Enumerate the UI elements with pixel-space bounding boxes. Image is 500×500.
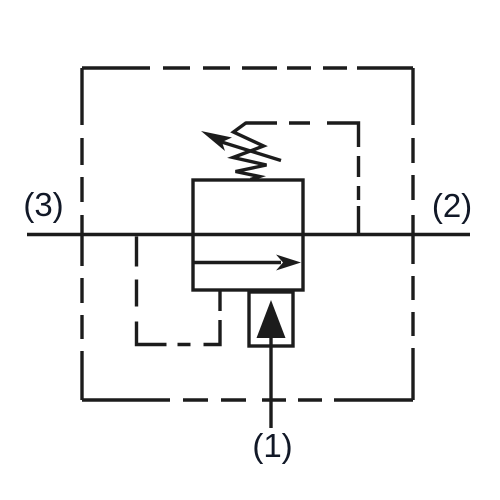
wire: outer dashed drain envelope bottom: [82, 398, 413, 401]
wire: outer dashed drain envelope right: [411, 68, 414, 400]
wire: pilot dashed line from spring top to port 2 line: [246, 123, 359, 234]
pilot pressure arrow (filled triangle): [257, 300, 286, 338]
wire: pilot dashed sensing loop lower left: [137, 236, 221, 345]
svg-text:(1): (1): [252, 427, 292, 464]
wire: outer dashed drain envelope left: [80, 68, 83, 400]
wire: port 1 vertical line: [269, 336, 272, 428]
valve body V1: [193, 180, 303, 290]
svg-text:(3): (3): [23, 186, 63, 223]
wire: main line port 3 to port 2: [27, 233, 470, 236]
svg-text:(2): (2): [432, 187, 472, 224]
pilot poppet box: [249, 292, 293, 346]
spring (adjustable): [233, 123, 267, 180]
wire: outer dashed drain envelope top: [82, 66, 413, 69]
adjustment arrow across spring: [220, 142, 281, 161]
flow path arrow inside valve body: [194, 261, 281, 264]
